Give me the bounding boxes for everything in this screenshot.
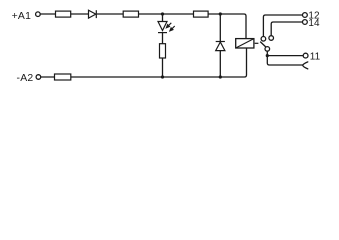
node junction top diode bbox=[219, 12, 222, 15]
LED D2 bbox=[158, 22, 167, 33]
terminal +A1 circle bbox=[36, 12, 41, 17]
svg-text:-A2: -A2 bbox=[17, 73, 34, 84]
contact armature bbox=[260, 42, 266, 47]
terminal 11 circle bbox=[303, 53, 308, 58]
svg-text:+A1: +A1 bbox=[12, 11, 32, 22]
relay coil diagonal bbox=[236, 39, 254, 48]
wire diode branch bbox=[219, 14, 221, 77]
LED arrows bbox=[166, 23, 174, 31]
resistor R5 vertical bbox=[160, 44, 166, 58]
diode D1 bbox=[89, 10, 97, 18]
coil linkage tick bbox=[255, 42, 259, 44]
wire contact 14 drop bbox=[271, 22, 302, 36]
wire LED branch bbox=[162, 14, 164, 77]
relay coil K1 bbox=[236, 39, 254, 48]
contact fixed 12 circle bbox=[261, 37, 266, 42]
svg-text:14: 14 bbox=[308, 18, 320, 29]
resistor R2 top bbox=[123, 11, 138, 17]
plug contact fork bbox=[303, 62, 308, 69]
resistor R3 top bbox=[194, 11, 209, 17]
terminal -A2 circle bbox=[36, 75, 41, 80]
wire bottom rail bbox=[41, 48, 247, 77]
diode D3 flyback bbox=[216, 42, 225, 51]
node junction bottom LED bbox=[161, 75, 164, 78]
resistor R4 bottom bbox=[55, 74, 71, 80]
wire common to plug contact bbox=[267, 56, 303, 65]
node junction bottom diode bbox=[219, 75, 222, 78]
node junction top LED bbox=[161, 12, 164, 15]
node junction common bbox=[266, 54, 269, 57]
resistor R1 top bbox=[56, 11, 71, 17]
wire contact 12 drop bbox=[263, 15, 302, 36]
wire common to 11 bbox=[267, 51, 303, 55]
svg-text:11: 11 bbox=[310, 51, 321, 62]
contact fixed 14 circle bbox=[269, 36, 274, 41]
contact common circle bbox=[265, 47, 270, 52]
wire top rail bbox=[40, 14, 246, 39]
terminal 14 circle bbox=[303, 20, 308, 25]
terminal 12 circle bbox=[303, 13, 308, 18]
